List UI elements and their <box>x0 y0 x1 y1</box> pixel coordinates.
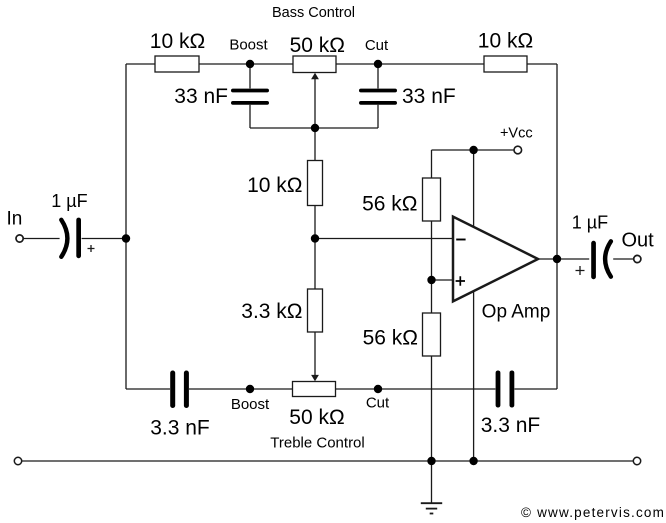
wire inverting input <box>315 238 452 240</box>
node input junction on left rail <box>122 234 130 242</box>
node Cut top junction <box>374 60 382 68</box>
svg-text:50 kΩ: 50 kΩ <box>290 34 345 57</box>
svg-text:33 nF: 33 nF <box>402 85 456 108</box>
terminal bottom rail right <box>633 457 640 464</box>
node Vcc junction <box>469 146 477 154</box>
node middle divider junction <box>311 234 319 242</box>
wire bottom ground rail <box>22 460 634 462</box>
svg-text:Boost: Boost <box>231 396 270 413</box>
wire left rail <box>125 64 127 389</box>
svg-text:56 kΩ: 56 kΩ <box>363 327 418 350</box>
wire Vcc horizontal <box>432 149 514 151</box>
wire R5 bottom through plus node to R6 top <box>431 221 433 313</box>
wire op-amp V- pin <box>473 291 475 461</box>
node output junction on right rail <box>553 255 561 263</box>
ground symbol <box>421 503 442 513</box>
svg-text:Treble Control: Treble Control <box>270 435 364 452</box>
terminal +Vcc circle <box>514 146 522 154</box>
terminal In circle <box>16 235 23 242</box>
svg-text:Cut: Cut <box>366 395 390 412</box>
node bass wiper junction <box>311 124 319 132</box>
capacitor C6 1 uF output electrolytic plates <box>591 241 611 279</box>
capacitor C3 3.3 nF left plates <box>170 371 189 409</box>
svg-text:+Vcc: +Vcc <box>500 126 533 142</box>
wire In terminal to C5 <box>23 238 59 240</box>
svg-text:Boost: Boost <box>229 37 268 54</box>
polarity plus mark C6 <box>576 266 585 275</box>
wire R6 bottom to ground rail <box>431 356 433 462</box>
node ground rail junction left <box>427 457 435 465</box>
capacitor C4 3.3 nF right plates <box>496 371 515 408</box>
terminal Out circle <box>634 255 641 262</box>
wire C6 to Out terminal <box>613 258 633 260</box>
wire R4 bottom to treble wiper <box>314 332 316 375</box>
wire treble rail segment 2 <box>189 388 293 390</box>
op-amp U1 inverting input minus mark <box>456 239 465 241</box>
potentiometer VR1 wiper arrow <box>311 73 319 79</box>
wire node to R3 top <box>314 128 316 161</box>
wire top rail segment 2 <box>199 63 293 65</box>
svg-text:10 kΩ: 10 kΩ <box>247 174 302 197</box>
wire capacitor bottoms connector <box>250 127 378 129</box>
wire op-amp V+ pin <box>473 150 475 227</box>
resistor R1 (top left) body <box>155 56 199 72</box>
polarity plus mark C5 <box>88 245 95 252</box>
capacitor C1 33 nF left plates <box>231 89 269 105</box>
resistor R2 (top right) body <box>484 56 527 72</box>
wire right rail <box>556 64 558 389</box>
wire ground lead <box>431 461 433 503</box>
wire op-amp output to right rail <box>538 258 589 260</box>
svg-text:50 kΩ: 50 kΩ <box>289 406 344 429</box>
svg-text:Bass Control: Bass Control <box>272 5 355 21</box>
op-amp U1 triangle <box>453 217 538 302</box>
svg-text:Out: Out <box>622 230 655 252</box>
svg-text:In: In <box>7 209 23 230</box>
svg-text:Op Amp: Op Amp <box>482 302 551 323</box>
node Boost bottom junction <box>246 385 254 393</box>
node non-inverting input junction <box>427 276 435 284</box>
svg-text:10 kΩ: 10 kΩ <box>478 30 533 53</box>
capacitor C5 1 uF input electrolytic plates <box>61 218 81 259</box>
svg-text:Cut: Cut <box>365 37 389 54</box>
resistor R3 (middle) body <box>308 161 323 206</box>
capacitor C2 33 nF right plates <box>359 89 397 105</box>
svg-text:10 kΩ: 10 kΩ <box>150 30 205 53</box>
svg-text:3.3 kΩ: 3.3 kΩ <box>241 300 302 323</box>
potentiometer VR1 bass body <box>293 56 336 73</box>
op-amp U1 non-inverting input plus mark <box>456 276 465 285</box>
wire treble rail segment 1 <box>126 388 170 390</box>
svg-text:3.3 nF: 3.3 nF <box>481 414 541 437</box>
svg-text:33 nF: 33 nF <box>174 85 228 108</box>
resistor R4 body <box>308 289 323 332</box>
wire cut node to C2 top plate <box>377 64 379 88</box>
svg-text:3.3 nF: 3.3 nF <box>150 417 210 440</box>
wire top rail segment 4 <box>527 63 557 65</box>
wire Vcc corner to R5 top <box>431 150 433 178</box>
potentiometer VR2 wiper arrow <box>311 375 319 381</box>
svg-text:1 µF: 1 µF <box>572 213 608 233</box>
wire top rail segment 1 <box>126 63 155 65</box>
potentiometer VR2 treble body <box>293 382 336 397</box>
wire C2 bottom plate down <box>377 105 379 128</box>
wire bass wiper to node <box>314 79 316 128</box>
wire boost node to C1 top plate <box>249 64 251 88</box>
node Cut bottom junction <box>374 385 382 393</box>
wire treble rail segment 4 <box>515 388 558 390</box>
node ground rail junction right <box>469 457 477 465</box>
wire non-inverting input <box>432 279 453 281</box>
wire treble rail segment 3 <box>336 388 496 390</box>
svg-text:© www.petervis.com: © www.petervis.com <box>521 505 665 520</box>
wire top rail segment 3 <box>336 63 484 65</box>
wire C1 bottom plate down <box>249 105 251 128</box>
svg-text:56 kΩ: 56 kΩ <box>362 193 417 216</box>
resistor R5 (upper 56k) body <box>423 178 441 221</box>
svg-text:1 µF: 1 µF <box>51 191 87 211</box>
resistor R6 (lower 56k) body <box>423 313 441 356</box>
wire R3 bottom to node B <box>314 206 316 290</box>
wire C5 to left rail <box>82 238 126 240</box>
node Boost top junction <box>246 60 254 68</box>
terminal bottom rail left <box>14 457 21 464</box>
